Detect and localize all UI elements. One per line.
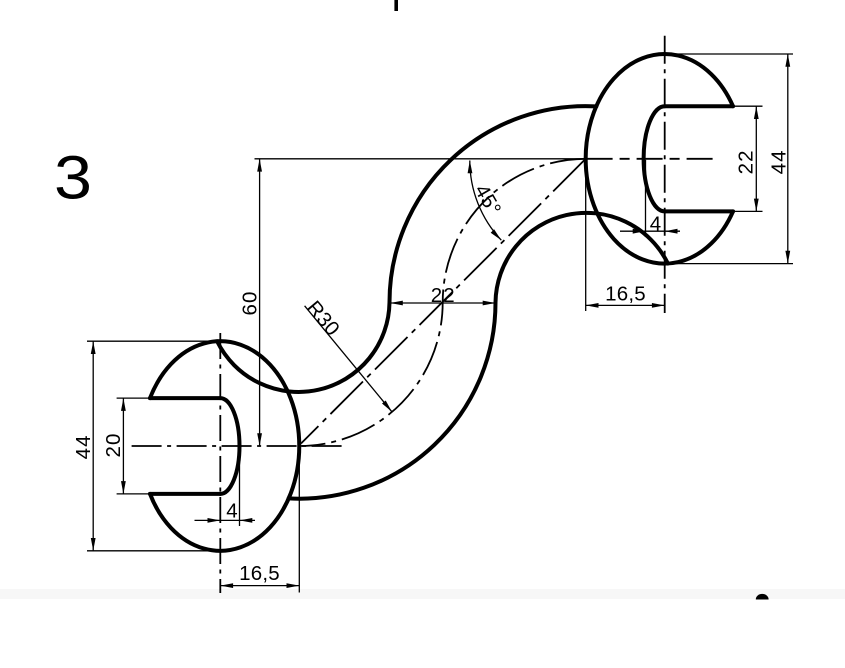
svg-text:3: 3: [54, 144, 92, 212]
svg-text:44: 44: [768, 149, 791, 174]
svg-text:44: 44: [72, 434, 95, 459]
svg-text:60: 60: [239, 290, 262, 315]
svg-text:22: 22: [431, 284, 456, 307]
svg-text:16,5: 16,5: [239, 562, 280, 585]
svg-text:4: 4: [650, 213, 663, 236]
svg-text:4: 4: [226, 500, 239, 523]
svg-text:16,5: 16,5: [605, 283, 646, 306]
svg-text:20: 20: [102, 432, 125, 457]
svg-text:22: 22: [734, 149, 757, 174]
